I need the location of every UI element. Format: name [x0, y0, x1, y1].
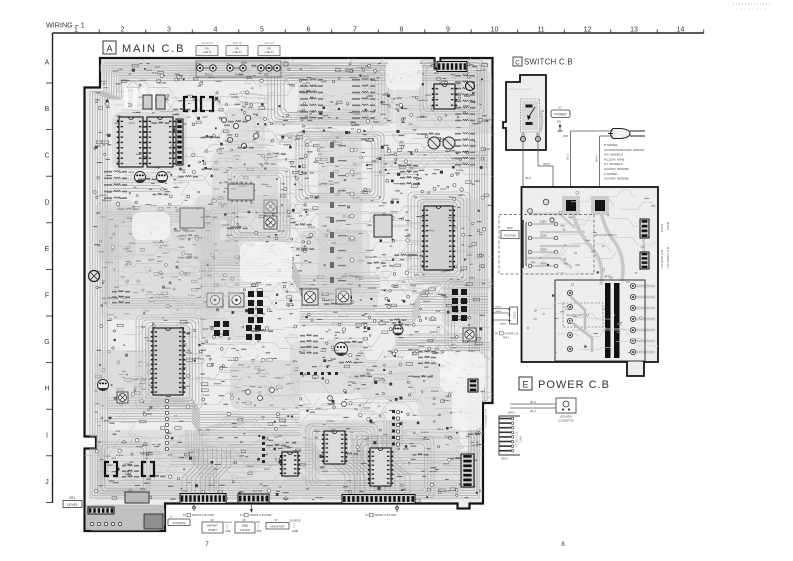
IC Q202	[156, 95, 165, 109]
capacitor C302	[443, 137, 455, 149]
socket SK1	[207, 293, 223, 307]
svg-text:C: C	[515, 60, 520, 67]
VR1 LEVEL label	[63, 496, 82, 508]
svg-text:(J2,C2,K2 ONLY): (J2,C2,K2 ONLY)	[595, 233, 617, 237]
svg-text:TAPE: TAPE	[292, 529, 299, 533]
svg-text:VOLTAGE: VOLTAGE	[504, 234, 516, 238]
svg-text:S6: S6	[210, 518, 214, 522]
svg-text:TO: TO	[495, 333, 498, 336]
wire BLU	[571, 130, 614, 132]
trimmer VR303	[117, 392, 128, 403]
wire GRY	[523, 131, 613, 198]
svg-text:LINE IN: LINE IN	[233, 51, 242, 54]
svg-text:DBB: DBB	[242, 524, 248, 528]
IC303	[368, 448, 393, 486]
B20 VOLTAGE label	[501, 226, 519, 239]
svg-text:FRONT C.B CON5: FRONT C.B CON5	[192, 513, 214, 517]
svg-text:U/C MODELS: U/C MODELS	[604, 153, 623, 157]
svg-text:D: D	[44, 199, 49, 206]
svg-text:14: 14	[677, 27, 685, 34]
svg-text:TC1: TC1	[441, 79, 447, 83]
bottom labels	[168, 505, 399, 533]
switch S1 body	[521, 99, 545, 132]
caps cluster bottom	[246, 388, 347, 407]
copper pour washes	[86, 59, 492, 531]
svg-text:OFF: OFF	[257, 530, 262, 533]
svg-text:3: 3	[167, 27, 171, 34]
LED assy cassette	[510, 398, 576, 423]
power board texture	[527, 190, 658, 354]
faint dots top right	[733, 3, 770, 5]
svg-text:C945: C945	[202, 116, 208, 119]
svg-text:TO POWER C.B: TO POWER C.B	[484, 409, 488, 428]
pads top-left power board	[528, 199, 555, 222]
IC bottom	[125, 492, 149, 503]
svg-text:POWER C.B: POWER C.B	[538, 379, 610, 391]
svg-text:115V: 115V	[540, 220, 546, 224]
pad column P301	[165, 399, 168, 450]
AC plug	[608, 129, 645, 139]
svg-text:REC: REC	[264, 74, 269, 77]
pad P201	[89, 271, 100, 282]
connector CON9 comb	[499, 412, 523, 461]
svg-text:CON9: CON9	[520, 436, 523, 443]
svg-text:CON8: CON8	[666, 221, 670, 230]
svg-text:OFF: OFF	[563, 134, 569, 138]
svg-text:12: 12	[584, 27, 592, 34]
IC206	[374, 215, 392, 237]
open board areas	[132, 60, 485, 430]
svg-text:(BRN): (BRN)	[596, 155, 599, 162]
transistor Q302	[393, 325, 403, 335]
svg-text:P06: P06	[258, 490, 263, 493]
svg-text:(BLK): (BLK)	[530, 401, 536, 404]
label C SWITCH C.B	[513, 57, 573, 67]
svg-text:P08: P08	[345, 490, 350, 493]
foot pads	[90, 522, 121, 525]
slot pads	[124, 88, 155, 108]
svg-text:P05: P05	[183, 490, 188, 493]
label E POWER C.B	[519, 377, 610, 391]
svg-text:230V: 230V	[540, 248, 547, 252]
svg-text:(BLK): (BLK)	[525, 177, 531, 180]
scattered resistor rows	[102, 90, 486, 477]
connector CON9v	[461, 454, 474, 487]
trimmer VR301	[302, 289, 318, 305]
fuse clips L401	[184, 97, 196, 111]
trimmer VR201	[264, 200, 277, 213]
svg-text:5: 5	[260, 27, 264, 34]
svg-text:S3: S3	[558, 106, 562, 110]
svg-text:LED ASSY: LED ASSY	[560, 415, 573, 419]
transistor Q303	[98, 380, 109, 391]
svg-text:Pb/Rch: Pb/Rch	[235, 74, 244, 77]
trimmer VR304	[463, 328, 476, 341]
svg-text:(BRN): (BRN)	[508, 412, 515, 415]
border ruler left	[44, 33, 53, 503]
top pad row CN	[196, 61, 288, 77]
pad PJ04	[466, 82, 475, 91]
voltage selector dashed box	[499, 215, 594, 275]
svg-text:TO: TO	[365, 513, 369, 517]
svg-text:2: 2	[121, 27, 125, 34]
socket SK2	[229, 293, 244, 307]
IC204	[180, 208, 204, 228]
vertical labels right of power board	[660, 250, 664, 268]
svg-text:F: F	[45, 293, 49, 300]
relay pads SP3	[452, 289, 467, 304]
svg-text:FRONT C.B CON6: FRONT C.B CON6	[250, 513, 272, 517]
svg-text:TO: TO	[240, 513, 244, 517]
svg-text:A: A	[106, 44, 112, 54]
wire WHT	[537, 142, 539, 166]
svg-text:ON: ON	[557, 120, 561, 124]
svg-text:LINE IN: LINE IN	[203, 51, 212, 54]
svg-text:LINE: LINE	[225, 530, 231, 533]
svg-text:START: START	[208, 528, 217, 532]
capacitor C301	[428, 137, 440, 149]
svg-text:PC1: PC1	[469, 63, 475, 67]
svg-text:K.T MODELS: K.T MODELS	[604, 162, 623, 166]
relay RL1	[105, 462, 117, 476]
svg-text:POWER: POWER	[554, 113, 567, 117]
svg-text:CON 3: CON 3	[514, 311, 517, 319]
svg-text:AC120V/220V/240V. 50/60Hz: AC120V/220V/240V. 50/60Hz	[604, 148, 645, 152]
component scatter texture	[88, 62, 491, 529]
svg-text:LEVEL: LEVEL	[67, 503, 78, 507]
svg-text:E: E	[45, 246, 50, 253]
svg-text:POWER C.B: POWER C.B	[505, 333, 519, 336]
svg-text:AC120V. 60HZ: AC120V. 60HZ	[604, 157, 625, 161]
foot block	[86, 505, 163, 530]
svg-text:ON: ON	[256, 521, 260, 524]
switch C.B board outline	[503, 75, 546, 150]
IC203	[228, 182, 254, 202]
svg-text:J: J	[45, 479, 49, 486]
pads row H	[300, 372, 338, 375]
svg-text:I: I	[46, 432, 48, 439]
svg-text:MAIN C.B: MAIN C.B	[122, 43, 185, 55]
svg-text:H MODEL: H MODEL	[604, 143, 618, 147]
svg-text:220V: 220V	[540, 234, 547, 238]
power board traces	[527, 207, 655, 352]
central component chain	[330, 142, 354, 283]
svg-text:(RED): (RED)	[496, 307, 502, 309]
svg-text:11: 11	[537, 27, 544, 34]
pad column	[392, 410, 400, 446]
svg-text:PHONES: PHONES	[173, 521, 186, 525]
svg-text:K MODEL: K MODEL	[604, 172, 618, 176]
copper contour traces	[90, 63, 487, 498]
resistor bank right C	[400, 132, 475, 184]
svg-text:SWITCH C.B 1-234-567: SWITCH C.B 1-234-567	[509, 89, 533, 91]
svg-text:L40: L40	[186, 116, 191, 119]
transformer PT1	[555, 275, 645, 361]
svg-text:9: 9	[446, 27, 450, 34]
IC302	[322, 431, 347, 464]
svg-text:B20: B20	[508, 226, 513, 230]
pads column 2	[262, 436, 265, 463]
svg-text:HEIGHT: HEIGHT	[207, 524, 218, 528]
svg-text:(BLU): (BLU)	[530, 410, 536, 413]
connector CON8	[640, 252, 649, 269]
pad sq2	[591, 196, 609, 215]
svg-text:C: C	[44, 153, 49, 160]
svg-text:6: 6	[307, 27, 311, 34]
svg-text:G: G	[44, 339, 49, 346]
svg-text:AC240V. 50/60HZ: AC240V. 50/60HZ	[604, 177, 629, 181]
connector CON5	[180, 494, 226, 504]
svg-text:TO FRONT C.B: TO FRONT C.B	[666, 247, 670, 268]
IC Q201	[143, 95, 152, 109]
svg-text:Pb/Lch: Pb/Lch	[205, 74, 213, 77]
svg-text:(CASSETTE): (CASSETTE)	[558, 419, 574, 423]
pad sq1	[562, 196, 580, 215]
resistor bank R310	[112, 290, 130, 303]
svg-text:SOURCE: SOURCE	[289, 519, 300, 523]
caps cluster C210	[221, 115, 258, 148]
relay pads SP1	[248, 291, 263, 306]
POWER switch label	[551, 106, 570, 139]
connector CON6	[238, 494, 269, 503]
pads cluster	[214, 321, 229, 336]
relay pads SP4	[452, 306, 467, 321]
svg-text:MONITOR: MONITOR	[270, 525, 285, 529]
svg-text:(BRN): (BRN)	[496, 311, 502, 313]
svg-text:TO DECK C.B: TO DECK C.B	[516, 431, 519, 447]
svg-text:TO: TO	[183, 513, 187, 517]
label A MAIN C.B	[103, 41, 185, 55]
svg-text:13: 13	[630, 27, 638, 34]
model voltage list	[604, 143, 645, 181]
svg-text:S5: S5	[242, 518, 246, 522]
svg-text:7: 7	[353, 27, 357, 34]
relay pads SP2	[248, 308, 263, 323]
tiny silk text marks	[96, 63, 491, 498]
pin strip	[176, 119, 183, 165]
power C.B board outline	[522, 187, 659, 362]
IC201	[117, 117, 145, 167]
svg-text:J2-1,2,3: J2-1,2,3	[264, 41, 274, 45]
svg-text:(BRN): (BRN)	[500, 324, 506, 326]
svg-text:(BLU): (BLU)	[567, 154, 570, 160]
wires to power board	[494, 307, 519, 340]
trace bundles	[108, 152, 488, 490]
svg-text:PIN 3: PIN 3	[503, 337, 510, 340]
trace rings upper middle	[106, 66, 388, 308]
IC304	[280, 452, 300, 476]
resistors between	[122, 464, 139, 477]
resistor bank bottom	[300, 334, 436, 364]
connector ref labels J2	[196, 41, 218, 56]
connector PC1	[437, 62, 467, 72]
switch pads	[520, 110, 542, 142]
svg-text:B: B	[45, 106, 50, 113]
resistor bank R234	[104, 170, 127, 199]
svg-text:8: 8	[400, 27, 404, 34]
svg-text:TO MAIN C.B: TO MAIN C.B	[660, 250, 664, 268]
svg-text:VR1: VR1	[69, 496, 75, 500]
svg-text:LINE IN: LINE IN	[265, 51, 274, 54]
power board tab	[627, 362, 644, 376]
connector CON4	[640, 219, 649, 238]
IC TC1	[432, 84, 457, 109]
IC202	[145, 117, 175, 167]
central pours	[95, 135, 362, 410]
foot dark block	[144, 514, 163, 529]
svg-text:AC220V. 50/60HZ: AC220V. 50/60HZ	[604, 167, 629, 171]
svg-text:S7: S7	[274, 518, 278, 522]
meander traces	[76, 47, 712, 497]
svg-text:ON/OFF: ON/OFF	[224, 522, 233, 524]
trimmer VR302	[336, 289, 351, 304]
connector P106	[468, 379, 478, 392]
svg-text:J2-1,2,3,4: J2-1,2,3,4	[201, 41, 213, 45]
transistor Q204	[157, 172, 168, 183]
relay RL2	[142, 462, 154, 476]
transistor Q203	[135, 172, 146, 183]
svg-text:FILTER: FILTER	[240, 528, 249, 532]
svg-text:A: A	[45, 60, 50, 67]
border ruler top	[53, 27, 704, 34]
svg-text:(WHT): (WHT)	[543, 163, 550, 166]
IC301 40pin	[151, 328, 185, 395]
wire BRN	[600, 135, 614, 137]
svg-text:J2-5,7,8: J2-5,7,8	[232, 41, 242, 45]
svg-text:1: 1	[74, 27, 78, 34]
vertical text power cb	[484, 409, 488, 428]
foot connector	[88, 507, 114, 514]
fan traces	[182, 435, 410, 493]
trace rings around ICs	[98, 60, 505, 498]
svg-text:FRONT C.B CON7: FRONT C.B CON7	[375, 513, 397, 517]
svg-text:4: 4	[214, 27, 218, 34]
svg-text:(RED): (RED)	[501, 458, 508, 461]
resistor bank R201-R215	[300, 74, 475, 121]
svg-text:WIRING – 1: WIRING – 1	[46, 21, 85, 30]
IC205 40pin	[422, 206, 455, 270]
svg-text:SWITCH C.B: SWITCH C.B	[524, 58, 573, 67]
transistor Q301	[335, 343, 348, 356]
connector CON7	[342, 495, 415, 504]
trimmer VR202	[264, 216, 277, 229]
svg-text:E: E	[522, 380, 528, 390]
svg-text:10: 10	[491, 27, 499, 34]
svg-text:H: H	[44, 386, 49, 393]
voltage rows	[523, 220, 558, 269]
main C.B board outline	[85, 58, 493, 531]
svg-text:CON4: CON4	[660, 223, 664, 232]
